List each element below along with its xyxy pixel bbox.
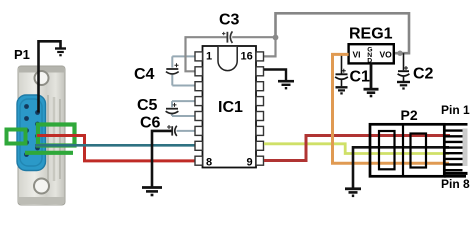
svg-text:REG1: REG1 [349, 26, 393, 43]
svg-text:8: 8 [206, 157, 212, 169]
connector P2 grey strip [463, 129, 468, 167]
wire black P2 pin to ground [353, 147, 449, 188]
svg-text:VO: VO [380, 50, 393, 60]
wire REG1 GND to ground [370, 63, 373, 88]
svg-text:IC1: IC1 [218, 99, 243, 116]
connector P2 top edge extension [444, 123, 467, 126]
svg-text:Pin 8: Pin 8 [441, 177, 470, 191]
svg-text:9: 9 [247, 157, 253, 169]
connector P2 comb bottom bar [444, 172, 468, 175]
DB9 blue insert [17, 95, 46, 171]
wire P1 pin to ground [39, 41, 61, 112]
screw hole top [35, 71, 49, 85]
junction node dot VO [397, 51, 402, 56]
IC1 notch [218, 47, 237, 71]
ground (C1) [336, 87, 348, 93]
svg-text:C4: C4 [134, 66, 155, 83]
green highlight box large [38, 125, 75, 146]
capacitor C3 [222, 31, 232, 43]
connector P2 inner rect 2 [411, 134, 427, 168]
svg-text:C2: C2 [413, 66, 434, 83]
regulator REG1 box [349, 44, 394, 63]
capacitor C6 [167, 125, 195, 136]
ground (P1) [55, 49, 66, 56]
connector P2 divider [402, 125, 404, 176]
connector P2 comb teeth [445, 131, 463, 171]
connector P2 outer box [370, 124, 444, 176]
svg-text:Pin 1: Pin 1 [441, 103, 470, 117]
svg-text:1: 1 [206, 51, 212, 63]
wire yellow IC1 pin 10 to P2 [264, 144, 449, 154]
IC1 body [203, 46, 257, 168]
wire red IC1 pin 9 to P2 [264, 136, 450, 161]
ground (P2) [345, 189, 361, 196]
wire grey C3 net from IC1 pin 2 [186, 37, 228, 71]
ground (C2) [397, 82, 410, 89]
svg-text:C3: C3 [219, 12, 240, 29]
svg-text:C6: C6 [140, 115, 161, 132]
wire red DB9 to IC1 pin 8 [37, 136, 195, 161]
capacitor C4 [166, 56, 195, 85]
svg-text:C1: C1 [350, 69, 371, 86]
IC1 pin boxes left [195, 52, 203, 165]
wire grey C3 to junction [232, 36, 275, 38]
svg-text:P1: P1 [14, 47, 30, 62]
svg-text:16: 16 [241, 51, 253, 63]
ground (REG1) [364, 89, 379, 96]
wire grey junction down to pin 16 [264, 37, 276, 56]
svg-text:VI: VI [353, 50, 361, 60]
junction node dot [273, 35, 279, 41]
connector P2 bottom edge extension [444, 175, 466, 178]
green highlight box small [7, 130, 26, 144]
wire grey top rail to REG1 VO [276, 13, 410, 53]
wire orange REG1 VI to P2 [333, 54, 450, 163]
capacitor C6 wire and ground [152, 131, 172, 187]
svg-text:C5: C5 [137, 97, 158, 114]
svg-text:P2: P2 [401, 107, 418, 123]
capacitor C5 [166, 101, 195, 116]
ground (C6) [142, 188, 162, 196]
capacitor C1 [335, 54, 348, 86]
capacitor C2 [398, 53, 410, 81]
DB9 pins [24, 104, 40, 157]
connector P2 inner rect 1 [379, 131, 395, 169]
ground (pin 15) [278, 81, 294, 88]
wire black pin 15 to ground [264, 70, 286, 81]
screw hole bottom [34, 179, 49, 194]
IC1 pin boxes right [256, 52, 264, 165]
green wire DB9 pin [25, 151, 73, 155]
wire teal DB9 to IC1 pin 7 [35, 144, 195, 147]
connector P1 DB9 body [18, 66, 65, 205]
